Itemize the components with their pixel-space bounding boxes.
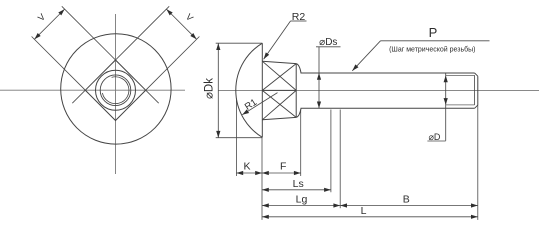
arrowhead V left upper [58, 9, 64, 15]
extension line V left upper (NE side of square extended) [62, 6, 119, 63]
dimension line K [237, 172, 262, 174]
arrowhead Lg right [333, 203, 340, 207]
arrowhead B left [340, 203, 347, 207]
arrowhead L left [262, 215, 269, 219]
axis centerline (side view) [219, 89, 539, 91]
shank top edge (side view) [301, 72, 475, 74]
dimension line Lg [262, 205, 340, 207]
thread minor line bottom [446, 104, 475, 106]
arrowhead F left [262, 171, 269, 175]
square neck end face (side view) [295, 64, 297, 118]
extension line V right upper (NW side of square extended) [113, 6, 170, 63]
extension line Lg/B boundary [339, 110, 341, 209]
square side extension stub at E corner [146, 90, 159, 103]
bolt head dome arc R (side view) [236, 43, 263, 137]
dimension line diameter D (vertical at thread start) [445, 73, 447, 108]
svg-text:(Шаг метрической резьбы): (Шаг метрической резьбы) [389, 46, 475, 54]
arrowhead Dk top [216, 43, 220, 50]
extension line Dk top [216, 42, 263, 44]
arrowhead V right lower [190, 33, 196, 39]
leader to label D [445, 108, 447, 141]
arrowhead Ds top [317, 73, 321, 80]
R2 label underline [291, 20, 307, 22]
svg-text:K: K [243, 160, 250, 172]
arrowhead Dk bottom [216, 131, 220, 138]
svg-text:P: P [429, 25, 438, 40]
extension line Dk bottom [216, 137, 263, 139]
thread minor arc, partial (front view) [102, 77, 129, 104]
neck upper X diagonal 2 [262, 64, 296, 91]
extension line F (shank start) [300, 110, 302, 177]
neck upper X diagonal 1 [262, 61, 296, 90]
svg-text:Ls: Ls [293, 178, 304, 190]
vertical centerline (front view) [115, 14, 117, 174]
svg-text:⌀Ds: ⌀Ds [319, 37, 337, 48]
R1 leader [242, 93, 277, 115]
dimension line B [340, 205, 478, 207]
neck-to-shank fillet top [296, 64, 301, 73]
label Ds underline [316, 46, 341, 48]
arrowhead Lg left [262, 203, 269, 207]
thread chamfer vertical [474, 75, 476, 105]
square neck top edge (side view) [262, 61, 296, 63]
svg-text:L: L [361, 205, 367, 217]
head circle Dk (front view) [61, 34, 171, 144]
extension line Ls end [330, 110, 332, 193]
extension line V left lower (SW side of square extended) [32, 37, 89, 94]
extension line V right lower (SE side of square extended) [143, 37, 200, 94]
neck lower X diagonal 1 [262, 90, 296, 119]
square neck bottom edge (side view) [262, 117, 296, 119]
svg-text:F: F [280, 160, 286, 172]
dimension line F [262, 172, 301, 174]
bolt end face [477, 76, 479, 105]
arrowhead D top [444, 75, 448, 82]
arrowhead K left [236, 171, 243, 175]
R2 leader [264, 21, 291, 59]
arrowhead Ls left [262, 188, 269, 192]
arrowhead V left lower [34, 33, 40, 39]
dimension line L [262, 216, 478, 218]
thread major circle (front view) [100, 75, 131, 106]
thread minor line top [446, 74, 475, 76]
bolt head bearing face (side view) [261, 43, 263, 137]
arrowhead V right upper [166, 9, 172, 15]
svg-text:Lg: Lg [296, 193, 308, 205]
horizontal centerline (front view) [0, 89, 185, 91]
dimension line diameter Ds [318, 47, 320, 109]
P leader shoulder [381, 40, 490, 42]
shank bottom edge (side view) [301, 107, 475, 109]
arrowhead Ds bottom [317, 102, 321, 109]
arrowhead L right [471, 215, 478, 219]
shank circle (front view) [96, 70, 136, 110]
square side extension stub at W corner [72, 90, 85, 103]
dimension line diameter Dk [217, 43, 219, 138]
arrowhead K right [255, 171, 262, 175]
extension line from head face down [261, 137, 263, 220]
extension line K (dome tangent) [235, 98, 237, 176]
extension line bolt end down [477, 105, 479, 220]
end chamfer top [475, 73, 478, 76]
P leader diagonal [352, 41, 380, 71]
arrowhead P [352, 64, 358, 70]
square neck (front view, rotated 45deg) [85, 60, 145, 121]
arrowhead B right [471, 203, 478, 207]
neck-to-shank fillet bottom [296, 108, 301, 117]
arrowhead F right [294, 171, 301, 175]
label D underline [427, 140, 445, 142]
arrowhead R2 [264, 52, 270, 59]
svg-text:⌀Dk: ⌀Dk [203, 78, 215, 99]
neck lower X diagonal 2 [262, 90, 296, 117]
svg-text:B: B [403, 194, 410, 206]
dimension line V right [166, 9, 196, 39]
end chamfer bottom [475, 105, 478, 108]
dimension line Ls [262, 189, 331, 191]
dimension line V left [34, 9, 64, 39]
arrowhead D bottom [444, 98, 448, 105]
arrowhead R1 [242, 109, 249, 114]
arrowhead Ls right [324, 188, 331, 192]
square neck mid edge on axis (side view) [262, 89, 296, 91]
